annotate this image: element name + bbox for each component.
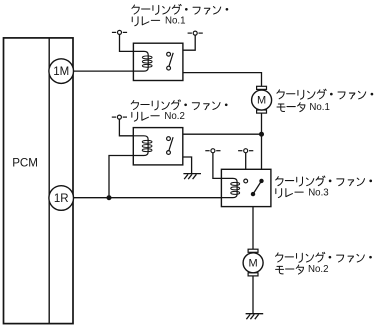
wire T1 to relay No.1 coil top bbox=[120, 34, 134, 51]
label motor No.2 line1 クーリング・ファン・ bbox=[276, 252, 372, 262]
label motor No.1 line2 モータ No.1 bbox=[277, 102, 330, 113]
relay No.2 coil bbox=[133, 136, 148, 156]
relay No.2 bbox=[133, 128, 183, 165]
relay No.1 coil bbox=[133, 51, 148, 71]
label relay No.2 line2 リレー No.2 bbox=[132, 111, 185, 122]
relay No.3 box bbox=[221, 169, 271, 206]
wire relay No.1 contact to T2 bbox=[169, 35, 196, 52]
wire T3 to relay No.2 coil top bbox=[119, 119, 133, 136]
label motor No.2 line2 モータ No.2 bbox=[276, 264, 329, 275]
svg-text:No.1: No.1 bbox=[165, 16, 185, 27]
relay No.2 switch contacts bbox=[167, 137, 171, 141]
wire relay No.2 contact to ground bbox=[169, 154, 192, 173]
label relay No.3 line2 リレー No.3 bbox=[276, 187, 329, 198]
relay No.3 common contact node bbox=[251, 192, 255, 196]
connector terminal T4 (relay No.3 coil supply) bbox=[205, 149, 220, 153]
connector terminal T5 (relay No.3 contact supply) bbox=[238, 149, 253, 153]
relay No.3 open contact bbox=[244, 179, 248, 183]
wire relay No.3 common to motor No.2 bbox=[252, 196, 254, 249]
ground below relay No.2 bbox=[183, 174, 201, 180]
label relay No.1 line1 クーリング・ファン・ bbox=[132, 4, 228, 14]
label relay No.3 line1 クーリング・ファン・ bbox=[276, 176, 372, 186]
svg-text:PCM: PCM bbox=[12, 157, 38, 170]
connector terminal T3 (relay No.2 coil supply) bbox=[112, 115, 127, 119]
wire branch junction to relay No.2 coil bbox=[109, 156, 133, 198]
relay No.3 bbox=[221, 169, 271, 206]
relay No.1 switch contacts bbox=[167, 52, 171, 56]
pin 1M bbox=[49, 59, 74, 84]
PCM module box bbox=[4, 38, 74, 324]
svg-text:1R: 1R bbox=[54, 193, 69, 205]
wire motor No.2 to ground bbox=[252, 276, 254, 314]
relay No.2 switch blade bbox=[169, 137, 173, 151]
label motor No.1 line1 クーリング・ファン・ bbox=[277, 89, 373, 99]
wire pin 1M to relay No.1 coil bbox=[73, 70, 133, 72]
node junction on 1R wire bbox=[107, 195, 112, 200]
svg-text:M: M bbox=[257, 95, 266, 107]
relay No.1 bbox=[133, 43, 183, 80]
label relay No.2 line1 クーリング・ファン・ bbox=[131, 100, 227, 110]
node A junction motor No.1 / relay No.2 / relay No.3 bbox=[259, 132, 264, 137]
wire relay No.2 contact to junction node A bbox=[169, 134, 262, 137]
svg-text:1M: 1M bbox=[53, 66, 69, 78]
PCM internal divider line bbox=[48, 38, 50, 324]
connector terminal T2 (relay No.1 contact supply) bbox=[188, 31, 203, 35]
svg-text:No.1: No.1 bbox=[309, 102, 329, 113]
wire T5 to relay No.3 open contact bbox=[245, 153, 247, 179]
relay No.3 switch blade bbox=[253, 181, 262, 194]
svg-text:No.2: No.2 bbox=[308, 264, 328, 275]
wire node A down to relay No.3 contact bbox=[261, 113, 263, 179]
label relay No.1 line2 リレー No.1 bbox=[132, 16, 185, 27]
relay No.1 switch blade bbox=[169, 53, 173, 67]
svg-text:No.3: No.3 bbox=[308, 187, 328, 198]
relay No.3 coil bbox=[221, 178, 237, 197]
wire relay No.1 contact to motor No.1 bbox=[169, 70, 262, 86]
ground below motor No.2 bbox=[246, 314, 264, 320]
relay No.3 closed contact node bbox=[259, 179, 263, 183]
wire pin 1R to relay No.3 coil bbox=[73, 197, 221, 199]
motor M No.2 bbox=[243, 249, 263, 276]
pin 1R bbox=[49, 186, 74, 211]
svg-text:No.2: No.2 bbox=[164, 111, 184, 122]
wire T4 to relay No.3 coil top bbox=[213, 153, 222, 179]
relay No.2 box bbox=[133, 128, 183, 165]
svg-text:M: M bbox=[249, 258, 258, 270]
relay No.1 box bbox=[133, 43, 183, 80]
motor M No.1 bbox=[252, 86, 272, 113]
connector terminal T1 (relay No.1 coil supply) bbox=[112, 30, 127, 34]
